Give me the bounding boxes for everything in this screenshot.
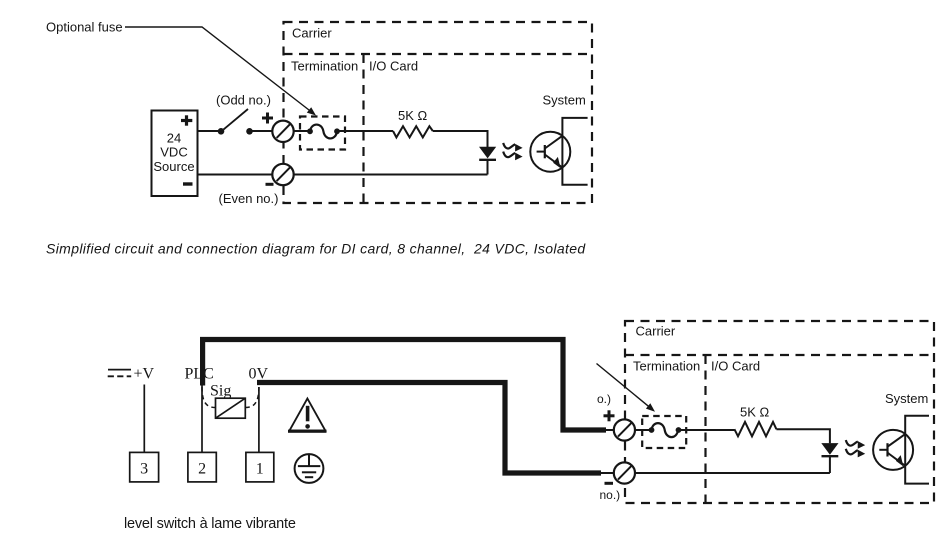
source plus sign bbox=[181, 115, 192, 125]
wire source to switch bbox=[198, 130, 219, 132]
led cathode bar (bottom) bbox=[822, 455, 839, 457]
terminal (even) circle bbox=[272, 164, 293, 185]
thick wire B (0V to - terminal) bbox=[257, 383, 601, 474]
svg-text:2: 2 bbox=[198, 461, 206, 478]
fuse node dot left bbox=[307, 128, 313, 134]
phototransistor Q1 bbox=[530, 132, 570, 172]
plus label at odd terminal bbox=[262, 113, 273, 124]
termination divider (horizontal) bbox=[284, 53, 593, 55]
switch blade bbox=[224, 109, 249, 130]
terminal (+) circle bottom bbox=[614, 419, 635, 440]
thick wire A (PLC sig to + terminal) bbox=[203, 340, 606, 431]
plus label (bottom) bbox=[604, 410, 615, 421]
bottom rail wire (bottom diagram) bbox=[635, 472, 830, 474]
carrier box (top) bbox=[284, 22, 593, 203]
warning triangle bbox=[288, 399, 327, 433]
svg-text:no.): no.) bbox=[600, 488, 621, 502]
svg-text:Termination: Termination bbox=[633, 359, 700, 374]
io card divider (bottom) bbox=[704, 355, 706, 503]
wire fuse to resistor (bottom) bbox=[681, 429, 734, 431]
terminal (+) slash bbox=[618, 423, 631, 437]
fuse F2 bbox=[652, 423, 679, 437]
bottom rail wire (source minus) bbox=[198, 174, 273, 176]
led D1 (anode triangle) bbox=[479, 147, 496, 159]
wire switch to terminal bbox=[253, 130, 273, 132]
wire fuse to resistor bbox=[340, 130, 394, 132]
svg-text:I/O Card: I/O Card bbox=[711, 359, 760, 374]
wire terminal to fuse bbox=[294, 130, 310, 132]
label Optional fuse bbox=[46, 20, 123, 35]
fuse node dot right bbox=[334, 128, 340, 134]
fuse box bottom (dashed) bbox=[642, 416, 686, 448]
terminal (-) slash bbox=[618, 466, 631, 480]
termination divider (bottom) bbox=[625, 354, 934, 356]
signal converter diagonal bbox=[216, 398, 246, 418]
svg-text:System: System bbox=[543, 93, 586, 108]
wire resistor to led (bottom) bbox=[776, 429, 830, 443]
terminal box 1 bbox=[246, 452, 274, 482]
svg-text:5K Ω: 5K Ω bbox=[398, 108, 428, 123]
terminal box 2 bbox=[188, 452, 216, 482]
wire to terminal 2 bbox=[201, 385, 203, 453]
DC symbol bbox=[108, 369, 131, 371]
terminal (-) circle bottom bbox=[614, 462, 635, 483]
light arrows (optocoupler) bbox=[503, 143, 522, 160]
svg-text:Termination: Termination bbox=[291, 59, 358, 74]
arrowhead of leader bbox=[307, 107, 316, 115]
switch node dot right bbox=[246, 128, 253, 135]
fuse dot right (bottom) bbox=[676, 427, 682, 433]
carrier box (bottom) bbox=[625, 321, 934, 503]
svg-text:(Odd no.): (Odd no.) bbox=[216, 93, 271, 108]
svg-text:VDC: VDC bbox=[160, 145, 187, 160]
24 VDC source box bbox=[152, 111, 198, 197]
wire terminal to fuse (bottom) bbox=[635, 429, 652, 431]
led cathode bar bbox=[479, 159, 496, 161]
pointer line to fuse (bottom) bbox=[597, 364, 653, 410]
minus label at even terminal bbox=[266, 183, 274, 186]
svg-text:Optional fuse: Optional fuse bbox=[46, 20, 123, 35]
svg-text:+V: +V bbox=[134, 366, 155, 383]
wire to terminal 3 bbox=[143, 385, 145, 453]
wire led to bottom rail (bottom) bbox=[829, 456, 831, 473]
svg-text:(Even no.): (Even no.) bbox=[219, 191, 279, 206]
minus label (bottom) bbox=[605, 482, 614, 485]
fuse dot left (bottom) bbox=[649, 427, 655, 433]
svg-text:Simplified circuit and connect: Simplified circuit and connection diagra… bbox=[46, 241, 586, 257]
terminal (even) slash bbox=[277, 167, 291, 181]
fuse F1 bbox=[310, 125, 337, 139]
terminal (odd) slash bbox=[277, 124, 291, 138]
wire to terminal 1 bbox=[258, 387, 260, 453]
system bracket (top) bbox=[562, 118, 587, 185]
signal converter box bbox=[216, 398, 246, 418]
light arrows (bottom optocoupler) bbox=[846, 440, 865, 457]
led D2 (anode triangle) bbox=[821, 443, 838, 455]
fuse box (dashed) bbox=[300, 117, 345, 150]
phototransistor Q2 bbox=[873, 430, 913, 470]
system bracket (bottom) bbox=[905, 416, 929, 484]
svg-text:1: 1 bbox=[256, 461, 264, 478]
leader line to fuse bbox=[125, 27, 314, 114]
svg-text:Carrier: Carrier bbox=[292, 26, 332, 41]
source minus sign bbox=[183, 182, 193, 185]
wire led to bottom rail bbox=[487, 160, 489, 175]
svg-text:24: 24 bbox=[167, 131, 181, 146]
wire resistor to led bbox=[433, 131, 488, 147]
source text bbox=[153, 131, 194, 175]
svg-text:Carrier: Carrier bbox=[636, 324, 676, 339]
terminal box 3 bbox=[130, 452, 159, 482]
svg-text:5K Ω: 5K Ω bbox=[740, 404, 770, 419]
svg-text:I/O Card: I/O Card bbox=[369, 59, 418, 74]
svg-text:3: 3 bbox=[140, 461, 148, 478]
wire thick A to terminal bbox=[605, 429, 614, 431]
svg-text:level switch à lame vibrante: level switch à lame vibrante bbox=[124, 516, 296, 532]
svg-text:System: System bbox=[885, 391, 928, 406]
switch node dot left bbox=[218, 128, 225, 135]
resistor 5K bbox=[393, 126, 433, 137]
svg-text:Sig: Sig bbox=[210, 383, 231, 400]
io card divider (vertical) bbox=[362, 54, 364, 203]
terminal (odd) circle bbox=[272, 121, 293, 142]
wire thick B to terminal bbox=[600, 472, 614, 474]
dashed signal arc bbox=[202, 387, 259, 408]
svg-text:Source: Source bbox=[153, 159, 194, 174]
wire even terminal to led bbox=[294, 174, 488, 176]
svg-text:o.): o.) bbox=[597, 392, 611, 406]
protective earth symbol bbox=[295, 454, 324, 483]
resistor 5K (bottom) bbox=[734, 422, 776, 436]
pointer arrowhead (bottom) bbox=[646, 403, 655, 412]
svg-text:PLC: PLC bbox=[185, 366, 214, 383]
